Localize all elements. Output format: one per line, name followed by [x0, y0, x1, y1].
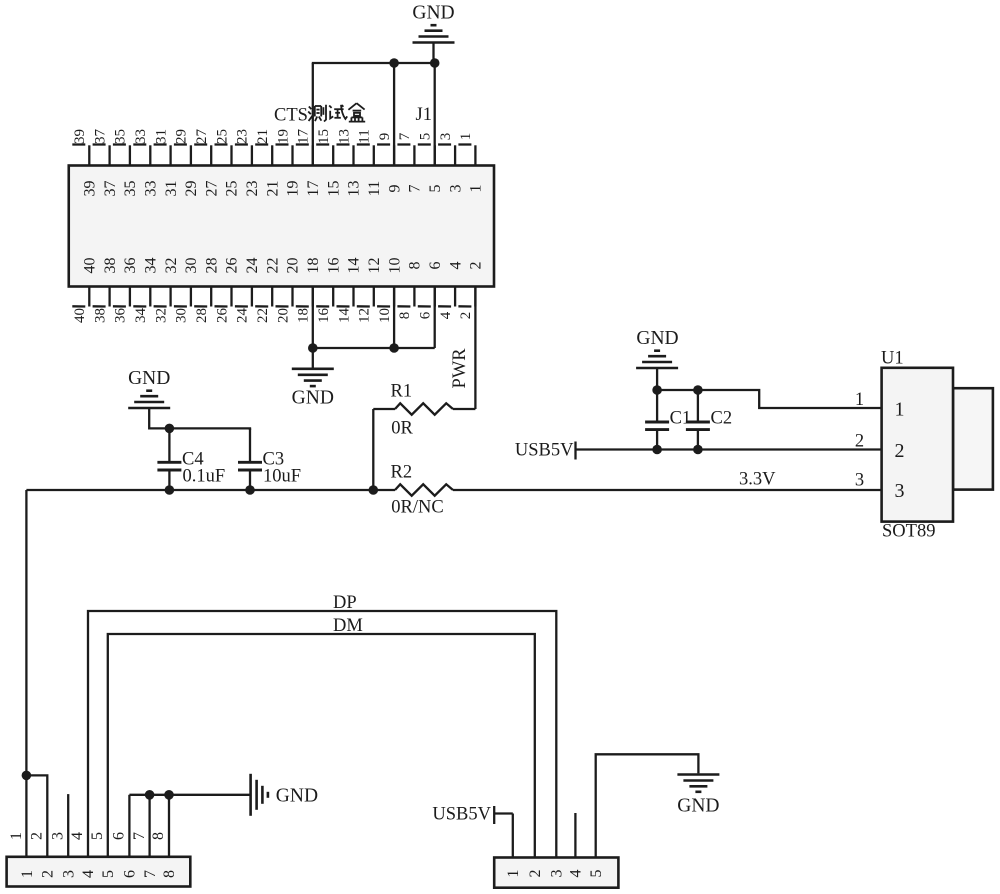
J1 pin 3 (top stub) [438, 145, 455, 166]
J1 pin 4 (bottom stub) [438, 287, 455, 307]
svg-text:19: 19 [285, 181, 302, 197]
J1 pin 15 (top stub) [316, 145, 333, 166]
svg-text:GND: GND [677, 796, 719, 817]
J1 pin 6 (bottom stub) [418, 287, 435, 307]
svg-text:10: 10 [386, 258, 403, 274]
svg-text:23: 23 [235, 129, 251, 144]
wire J1 pin 18 down to GND bus [312, 287, 314, 349]
svg-text:39: 39 [72, 129, 88, 144]
svg-text:USB5V: USB5V [515, 441, 574, 461]
wire J3 pin 5 to GND [596, 754, 699, 857]
J1 pin 9 (top stub) [377, 145, 394, 166]
svg-text:4: 4 [568, 870, 585, 878]
J1 pin 14 (bottom stub) [337, 287, 354, 307]
svg-text:R1: R1 [391, 382, 413, 402]
svg-text:39: 39 [82, 181, 99, 197]
J1 pin 21 (top stub) [255, 145, 272, 166]
J1 pin 22 (bottom stub) [255, 287, 272, 307]
wire R1 node down to 3.3V rail [372, 409, 374, 490]
svg-text:23: 23 [244, 181, 261, 197]
svg-text:U1: U1 [881, 349, 904, 369]
J1 pin 39 (top stub) [72, 145, 89, 166]
svg-text:5: 5 [588, 870, 605, 878]
svg-text:0.1uF: 0.1uF [183, 467, 226, 487]
junction C1 top [652, 385, 662, 395]
J1 pin 27 (top stub) [194, 145, 211, 166]
J1 pin 19 (top stub) [276, 145, 293, 166]
J1 pin 29 (top stub) [174, 145, 191, 166]
svg-text:30: 30 [174, 308, 190, 323]
svg-text:15: 15 [316, 129, 332, 144]
svg-text:35: 35 [113, 129, 129, 144]
wire GND stem to C1/C2 top net [656, 369, 658, 391]
svg-text:13: 13 [346, 181, 363, 197]
label 测 (CJK char 1 of connector title) [308, 105, 326, 122]
resistor R1 body [395, 403, 453, 414]
junction left rail / pin2 branch [22, 771, 32, 781]
svg-text:GND: GND [292, 388, 334, 409]
svg-text:3: 3 [60, 870, 77, 878]
svg-text:3: 3 [49, 832, 66, 840]
svg-text:C2: C2 [711, 409, 733, 429]
svg-text:3: 3 [438, 133, 454, 141]
svg-text:3: 3 [549, 870, 566, 878]
svg-text:2: 2 [895, 440, 905, 462]
svg-text:11: 11 [357, 129, 373, 143]
svg-text:10uF: 10uF [263, 467, 301, 487]
svg-text:0R/NC: 0R/NC [391, 498, 443, 518]
J1 pin 23 (top stub) [235, 145, 252, 166]
svg-text:SOT89: SOT89 [882, 522, 935, 542]
svg-text:1: 1 [895, 399, 905, 421]
svg-text:5: 5 [89, 832, 106, 840]
svg-text:24: 24 [244, 258, 261, 274]
svg-text:14: 14 [336, 308, 352, 324]
svg-text:6: 6 [427, 262, 444, 270]
J1 pin 34 (bottom stub) [133, 287, 150, 307]
svg-text:8: 8 [150, 832, 167, 840]
svg-text:25: 25 [224, 181, 241, 197]
svg-text:1: 1 [505, 870, 522, 878]
J1 pin 38 (bottom stub) [93, 287, 110, 307]
ground symbol (J3 area) [677, 775, 719, 792]
svg-text:31: 31 [163, 181, 180, 197]
wire J1 pin 6 down to GND bus [434, 287, 436, 349]
wire J1 pin 9 to GND net [393, 63, 395, 166]
wire GND net of J2 pins 6-8 [129, 794, 250, 796]
wire J1 pin 17 to GND net [312, 63, 314, 166]
svg-text:3: 3 [895, 480, 905, 502]
svg-text:1: 1 [855, 390, 864, 410]
label 盒 (CJK char 3 of connector title) [348, 103, 365, 121]
svg-text:20: 20 [275, 308, 291, 323]
svg-text:22: 22 [255, 308, 271, 323]
wire USB5V to U1 pin 2 [576, 448, 882, 450]
svg-text:30: 30 [183, 258, 200, 274]
svg-text:25: 25 [214, 129, 230, 144]
J1 pin 40 (bottom stub) [72, 287, 89, 307]
svg-text:29: 29 [174, 129, 190, 144]
wire J2 pin 8 to GND wire [168, 795, 170, 857]
wire DP net [88, 611, 556, 858]
J1 pin 36 (bottom stub) [113, 287, 130, 307]
J1 pin 35 (top stub) [113, 145, 130, 166]
svg-text:DP: DP [333, 593, 357, 613]
svg-text:34: 34 [133, 308, 149, 324]
wire J1 pin 10 down to GND bus [393, 287, 395, 349]
ground symbol (top, J1) [413, 25, 455, 42]
capacitor C4 [168, 428, 170, 490]
J1 pin 18 (bottom stub) [296, 287, 313, 307]
svg-text:3.3V: 3.3V [739, 470, 776, 490]
svg-text:27: 27 [194, 129, 210, 145]
J1 pin 25 (top stub) [215, 145, 232, 166]
capacitor C2 [697, 390, 699, 450]
svg-text:40: 40 [72, 308, 88, 323]
J1 pin 8 (bottom stub) [397, 287, 414, 307]
svg-text:C1: C1 [670, 409, 692, 429]
svg-text:20: 20 [285, 258, 302, 274]
wire C1/C2 top net to U1 pin 1 [657, 390, 882, 408]
capacitor C3 [249, 428, 251, 490]
svg-text:19: 19 [275, 129, 291, 144]
svg-text:GND: GND [276, 786, 318, 807]
svg-text:7: 7 [407, 185, 424, 193]
svg-text:2: 2 [40, 870, 57, 878]
wire USB5V to J3 pin 1 [494, 812, 513, 814]
svg-text:4: 4 [447, 262, 464, 270]
svg-text:7: 7 [142, 870, 159, 878]
wire 3.3V rail right segment [453, 489, 882, 491]
svg-text:36: 36 [113, 308, 129, 324]
wire J2 pin 6 to GND wire [128, 795, 130, 857]
J1 pin 17 (top stub) [296, 145, 313, 166]
svg-text:6: 6 [111, 832, 128, 840]
ground symbol (sideways, J2) [251, 774, 268, 816]
wire GND to C4/C3 top net [149, 409, 250, 431]
svg-text:2: 2 [527, 870, 544, 878]
svg-text:6: 6 [122, 870, 139, 878]
wire GND bus under J1 [313, 347, 435, 349]
ground symbol (C4 area) [128, 391, 170, 408]
svg-text:31: 31 [153, 129, 169, 144]
svg-text:21: 21 [255, 129, 271, 144]
svg-text:CTS: CTS [274, 106, 308, 126]
junction pin 7 / GND wire [145, 790, 155, 800]
svg-text:7: 7 [397, 132, 413, 140]
regulator U1 body [882, 368, 953, 522]
junction pin 18 / GND bus [308, 343, 318, 353]
J1 pin 20 (bottom stub) [276, 287, 293, 307]
connector J3 body [494, 858, 618, 888]
J1 pin 26 (bottom stub) [215, 287, 232, 307]
wire J3 pin 1 stub [512, 814, 514, 858]
junction rail / C3 [245, 485, 255, 495]
wire DM net [108, 634, 535, 858]
capacitor C1 [656, 390, 658, 450]
svg-text:26: 26 [214, 308, 230, 324]
svg-text:1: 1 [458, 133, 474, 141]
svg-text:24: 24 [235, 308, 251, 324]
svg-text:35: 35 [122, 181, 139, 197]
svg-text:8: 8 [161, 870, 178, 878]
J1 pin 33 (top stub) [133, 145, 150, 166]
svg-text:PWR: PWR [450, 348, 470, 389]
svg-text:27: 27 [203, 181, 220, 197]
svg-text:38: 38 [102, 258, 119, 274]
J1 pin 11 (top stub) [357, 145, 374, 166]
svg-text:4: 4 [69, 832, 86, 840]
svg-text:1: 1 [19, 870, 36, 878]
svg-text:GND: GND [128, 368, 170, 389]
junction pin 10 / GND bus [389, 343, 399, 353]
resistor R2 body [395, 484, 453, 495]
J1 pin 28 (bottom stub) [194, 287, 211, 307]
svg-text:15: 15 [325, 181, 342, 197]
junction at pin 5 riser [430, 58, 440, 68]
svg-text:6: 6 [418, 311, 434, 319]
svg-text:18: 18 [296, 308, 312, 323]
label 试 (CJK char 2 of connector title) [329, 105, 347, 119]
wire 3.3V rail left segment [26, 489, 395, 491]
svg-text:GND: GND [412, 3, 454, 24]
svg-text:8: 8 [397, 312, 413, 320]
tick of USB5V label (bottom) [493, 806, 495, 824]
svg-text:R2: R2 [391, 463, 413, 483]
svg-text:1: 1 [468, 185, 485, 193]
svg-text:17: 17 [305, 181, 322, 197]
J1 pin 37 (top stub) [93, 145, 110, 166]
svg-text:32: 32 [153, 308, 169, 323]
svg-text:10: 10 [377, 308, 393, 323]
svg-text:5: 5 [418, 133, 434, 141]
svg-text:2: 2 [855, 432, 864, 452]
junction C2 bottom [693, 445, 703, 455]
svg-text:21: 21 [264, 181, 281, 197]
regulator U1 tab (SOT89 tab) [953, 388, 993, 489]
svg-text:33: 33 [143, 181, 160, 197]
svg-text:16: 16 [316, 308, 332, 324]
J1 pin 13 (top stub) [337, 145, 354, 166]
wire J1 pin 2 (PWR) down to R1 [474, 287, 476, 410]
connector J1 CTS test box body [69, 166, 494, 287]
J1 pin 2 (bottom stub) [458, 287, 475, 307]
svg-text:3: 3 [447, 185, 464, 193]
wire J1 pin 5 to GND net [434, 63, 436, 166]
svg-text:USB5V: USB5V [432, 805, 491, 825]
svg-text:9: 9 [386, 185, 403, 193]
svg-text:J1: J1 [416, 105, 432, 125]
J1 pin 10 (bottom stub) [377, 287, 394, 307]
svg-text:8: 8 [407, 262, 424, 270]
svg-text:2: 2 [29, 832, 46, 840]
wire J3 pin 4 stub [574, 813, 576, 858]
wire R1 left lead [373, 408, 395, 410]
svg-text:0R: 0R [391, 419, 413, 439]
wire 3.3V rail down left side [25, 490, 27, 857]
svg-text:2: 2 [458, 312, 474, 320]
svg-text:29: 29 [183, 181, 200, 197]
junction C2 top [693, 385, 703, 395]
svg-text:12: 12 [357, 308, 373, 323]
junction C1 bottom [652, 445, 662, 455]
svg-text:16: 16 [325, 258, 342, 274]
ground symbol (C1/C2 area) [636, 351, 678, 368]
ground symbol (below J1) [292, 369, 334, 386]
wire horizontal GND net over J1 [312, 62, 434, 64]
junction rail / R1-R2 node [369, 485, 379, 495]
svg-text:32: 32 [163, 258, 180, 274]
svg-text:38: 38 [92, 308, 108, 323]
J1 pin 24 (bottom stub) [235, 287, 252, 307]
junction C4 top [165, 424, 175, 434]
J1 pin 31 (top stub) [154, 145, 171, 166]
svg-text:26: 26 [224, 258, 241, 274]
svg-text:13: 13 [336, 129, 352, 144]
J1 pin 32 (bottom stub) [154, 287, 171, 307]
svg-text:37: 37 [102, 181, 119, 197]
svg-text:11: 11 [366, 181, 383, 196]
svg-text:DM: DM [333, 616, 363, 636]
svg-text:1: 1 [8, 832, 25, 840]
svg-text:17: 17 [296, 129, 312, 145]
svg-text:34: 34 [143, 258, 160, 274]
svg-text:18: 18 [305, 258, 322, 274]
wire J2 pin 7 to GND wire [148, 795, 150, 857]
junction at pin 9 riser [389, 58, 399, 68]
junction pin 8 / GND wire [164, 790, 174, 800]
svg-text:33: 33 [133, 129, 149, 144]
svg-text:GND: GND [636, 328, 678, 349]
J1 pin 30 (bottom stub) [174, 287, 191, 307]
svg-text:5: 5 [100, 870, 117, 878]
svg-text:40: 40 [82, 258, 99, 274]
junction rail / C4 [165, 485, 175, 495]
J1 pin 1 (top stub) [458, 145, 475, 166]
wire J2 pin 3 stub [67, 794, 69, 857]
tick of USB5V label [574, 442, 576, 460]
svg-text:4: 4 [438, 311, 454, 319]
svg-text:9: 9 [377, 133, 393, 141]
svg-text:12: 12 [366, 258, 383, 274]
svg-text:7: 7 [131, 832, 148, 840]
svg-text:3: 3 [855, 471, 864, 491]
svg-text:2: 2 [468, 262, 485, 270]
svg-text:14: 14 [346, 258, 363, 274]
wire branch to J2 pin 2 [26, 775, 47, 856]
J1 pin 7 (top stub) [397, 145, 414, 166]
wire R1 right lead to PWR [453, 408, 475, 410]
svg-text:5: 5 [427, 185, 444, 193]
svg-text:37: 37 [92, 129, 108, 145]
J1 pin 12 (bottom stub) [357, 287, 374, 307]
svg-text:28: 28 [194, 308, 210, 323]
wire GND stem down to J1 pin 5 net [432, 44, 434, 64]
J1 pin 5 (top stub) [418, 145, 435, 166]
svg-text:36: 36 [122, 258, 139, 274]
svg-text:28: 28 [203, 258, 220, 274]
connector J2 body [7, 857, 191, 887]
wire GND bus stem down [312, 348, 314, 369]
svg-text:22: 22 [264, 258, 281, 274]
J1 pin 16 (bottom stub) [316, 287, 333, 307]
svg-text:4: 4 [80, 870, 97, 878]
